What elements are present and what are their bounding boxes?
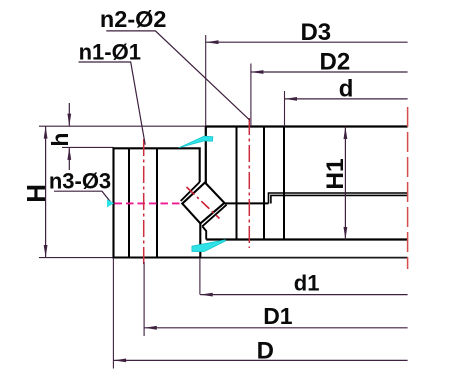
D extension line [112,258,114,369]
svg-text:d1: d1 [294,270,320,295]
bottom line of section extending to axis [114,257,408,259]
svg-text:D1: D1 [263,303,293,329]
svg-text:H: H [21,184,51,203]
D2 arrow [251,70,264,74]
D1 dimension line [144,327,407,329]
H dimension line [45,126,47,257]
h dimension upper arrow line [68,103,70,126]
d1 dimension line [200,294,407,296]
thin extension line top (y=126 level, H/h upper reference) [39,125,206,127]
inner ring bottom surface [206,238,407,240]
H1 bottom arrow [344,227,348,240]
D2 extension line [250,64,252,127]
svg-text:n1-Ø1: n1-Ø1 [79,40,141,65]
svg-text:h: h [47,133,73,147]
red centerline inner ring bolt [248,118,250,248]
svg-text:n3-Ø3: n3-Ø3 [49,168,111,193]
outer ring upper raceway outer line [181,182,200,201]
magenta seal gap dashed line [115,202,182,204]
D arrow [114,359,127,363]
n2-Ø2 leader [106,31,250,120]
roller (diamond) [182,183,224,224]
raceway gap line from roller right corner [224,202,268,204]
inner ring (right block) top surface [206,125,408,127]
n3-Ø3 leader [54,191,111,202]
h lower arrow [67,147,71,160]
red centerline axis right [407,107,409,269]
D3 extension line [205,35,207,127]
H top arrow [44,126,48,139]
split gap step inner line [271,195,408,203]
thin extension line h lower reference (y=147) [62,146,114,148]
n3-Ø3 cyan arrow [107,199,114,207]
outer ring bolt hole wall left [128,148,130,257]
D dimension line [114,359,408,361]
D3 dimension line [206,41,408,43]
d dimension line [285,98,408,100]
d1 arrow [200,293,213,297]
split gap step outer line [269,193,408,204]
d arrow [285,97,298,101]
outer ring (left block) outline [114,148,201,257]
svg-text:n2-Ø2: n2-Ø2 [100,6,167,32]
svg-text:D3: D3 [300,19,331,46]
inner ring internal line 3 [283,127,285,240]
inner ring lower pocket edge [202,226,206,239]
D2 dimension line [251,71,408,73]
h dimension lower arrow line [68,147,70,170]
H1 top arrow [344,127,348,140]
D1 extension line [143,262,145,336]
D3 arrow [206,40,219,44]
outer ring bolt hole wall right [156,148,158,257]
svg-text:D2: D2 [320,49,351,76]
bottom seal (cyan) [192,240,225,252]
inner ring internal line 2 [263,127,265,240]
roller axis red dash-dot [187,187,220,219]
red centerline outer ring bolt [143,139,145,266]
H1 dimension line [344,127,346,240]
d extension line [284,91,286,127]
thin extension line bottom (y=257.6, H lower reference) [39,257,114,259]
n1-Ø1 leader [79,62,146,145]
H bottom arrow [44,245,48,258]
d1 extension line [199,258,201,295]
D1 arrow [144,326,157,330]
roller raceway double line lower-right [202,205,226,227]
inner ring internal line 1 [236,127,238,240]
h upper arrow [67,114,71,127]
svg-text:D: D [257,338,274,365]
top seal (cyan) [179,136,213,148]
svg-text:d: d [339,76,354,103]
inner ring left edge [205,127,207,184]
svg-text:H1: H1 [322,158,349,189]
